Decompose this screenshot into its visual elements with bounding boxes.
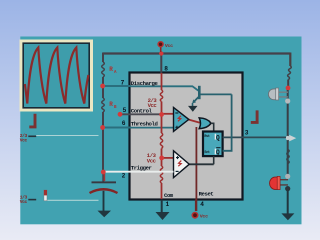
2/3 Vcc marker dash — [28, 135, 36, 137]
LED2 (on) legs — [280, 180, 288, 185]
capacitor C top plate — [92, 181, 117, 183]
node 6 junction dot — [100, 125, 105, 130]
svg-text:Vcc: Vcc — [20, 137, 28, 143]
transistor Q1 emitter — [193, 96, 199, 102]
2/3 Vcc divider label — [148, 97, 158, 109]
comparator U1 minus input wire — [162, 113, 174, 115]
node bead below LED2 — [285, 186, 290, 191]
2/3 Vcc level line — [36, 135, 98, 137]
node bead above LED2 — [285, 174, 290, 179]
node 7 junction dot — [100, 84, 105, 89]
scope inset frame — [20, 40, 94, 112]
node 2 junction dot — [101, 170, 106, 175]
resistor R1 (LED top) — [288, 66, 292, 80]
wire LED1 section — [287, 90, 289, 175]
svg-text:Vcc: Vcc — [148, 102, 158, 109]
transistor Q1 base lead — [199, 93, 231, 95]
output junction arrow — [286, 135, 297, 142]
svg-text:3: 3 — [245, 130, 249, 137]
divider resistor R3 — [160, 166, 162, 183]
pin5 control node dot — [118, 112, 123, 117]
divider wire node to R2 — [161, 114, 163, 133]
Vcc symbol (reset) — [192, 213, 208, 220]
output step glyph (pin3) — [251, 110, 259, 122]
capacitor voltage waveform trace — [25, 48, 89, 104]
trigger wire (white, node2 to comparator) — [105, 171, 174, 173]
resistor RB — [102, 98, 105, 112]
wire LED2 to ground — [287, 190, 289, 214]
svg-text:Trigger: Trigger — [131, 164, 152, 171]
LED1 (off) legs — [279, 92, 288, 97]
svg-text:Com: Com — [164, 192, 174, 199]
ground (emitter) — [188, 106, 198, 112]
wire R1 to LED1 — [287, 80, 289, 88]
capacitor voltage gauge icon — [44, 190, 47, 201]
svg-text:Threshold: Threshold — [131, 120, 158, 127]
divider wire R1 to node — [161, 102, 163, 115]
divider node A dot — [159, 112, 164, 117]
svg-text:1: 1 — [166, 201, 170, 208]
top Vcc supply rail wire — [103, 52, 290, 54]
gate G1 output wire — [211, 123, 214, 130]
wire node2 to capacitor (charged) — [103, 172, 105, 181]
capacitor C bottom plate — [90, 189, 118, 193]
output-low step glyph (left) — [29, 114, 36, 127]
pin4 external wire — [195, 200, 197, 212]
1/3 Vcc divider label — [147, 152, 157, 164]
reset wire (pin4 to gate) — [195, 127, 197, 211]
pin1 external wire — [161, 200, 163, 213]
Qbar wire to transistor base — [223, 94, 232, 150]
wire RA to node7 — [102, 77, 104, 86]
divider node B dot — [159, 156, 164, 161]
wire RB to node6 — [102, 112, 104, 128]
pin7 external wire — [103, 85, 131, 87]
divider resistor R2 — [160, 133, 162, 149]
svg-text:Set: Set — [204, 151, 209, 155]
OR gate G1 — [199, 118, 211, 129]
wire node7 to RB — [102, 86, 104, 98]
threshold internal wire — [130, 127, 174, 129]
LED1 (off) body — [268, 88, 278, 100]
flip-flop output Qbar — [215, 148, 221, 156]
1/3 Vcc threshold label — [20, 195, 28, 206]
left rail upper segment — [102, 53, 104, 63]
wire node2 to capacitor — [102, 172, 104, 182]
svg-text:4: 4 — [200, 201, 204, 208]
pin6 external wire — [103, 127, 131, 129]
Vcc junction dot — [159, 51, 163, 55]
1/3 Vcc marker dash — [28, 199, 36, 201]
svg-text:Reset: Reset — [199, 191, 214, 198]
comparator U1 output wire — [189, 120, 200, 123]
transistor Q1 emitter arrow — [192, 99, 196, 103]
divider wire R3 to pin1 — [161, 183, 163, 199]
transistor Q1 base bar — [198, 86, 201, 99]
control internal wire — [120, 113, 162, 115]
svg-text:Rst: Rst — [204, 135, 209, 139]
svg-text:Vcc: Vcc — [200, 214, 208, 220]
flip-flop output Q — [215, 134, 216, 140]
right rail upper segment — [289, 53, 291, 67]
svg-text:2: 2 — [122, 173, 126, 180]
2/3 Vcc threshold label — [20, 133, 28, 144]
wire emitter to ground — [192, 103, 194, 106]
wire capacitor to ground — [103, 191, 105, 211]
svg-text:8: 8 — [164, 66, 168, 73]
svg-text:Vcc: Vcc — [20, 199, 28, 205]
comparator U2 plus input wire — [162, 157, 174, 159]
ground (LED chain) — [281, 213, 294, 220]
svg-text:Q: Q — [216, 134, 220, 141]
Q output wire to pin3 — [223, 136, 286, 138]
wire node6 to node2 — [102, 128, 104, 173]
svg-text:R: R — [109, 66, 113, 73]
svg-text:6: 6 — [122, 120, 126, 127]
node dot (LED1 anode) — [286, 86, 291, 91]
comparator U1 (threshold) — [174, 107, 189, 131]
resistor RA — [102, 62, 105, 77]
divider wire R2 to node — [161, 149, 163, 167]
flip-flop U3 body — [203, 132, 223, 157]
resistor R2 (LED bottom) — [287, 150, 289, 164]
Vcc supply symbol — [158, 42, 173, 52]
ground (pin1) — [156, 212, 170, 220]
svg-text:Vcc: Vcc — [165, 43, 173, 49]
555 IC body — [130, 73, 243, 200]
ground (capacitor) — [98, 211, 112, 218]
svg-text:7: 7 — [121, 80, 125, 87]
svg-text:5: 5 — [123, 107, 127, 114]
svg-text:Q: Q — [216, 149, 220, 156]
circuit background panel — [20, 37, 301, 225]
pin8 external wire — [160, 54, 162, 74]
node bead below LED1 — [285, 98, 290, 103]
comparator U2 output wire — [189, 163, 213, 165]
LED2 (on) body — [270, 176, 281, 189]
divider resistor R1 — [160, 90, 162, 102]
svg-text:R: R — [109, 101, 113, 108]
svg-text:Vcc: Vcc — [147, 157, 157, 164]
flip-flop set input wire — [213, 156, 215, 164]
discharge internal wire — [130, 86, 198, 90]
1/3 Vcc level line — [45, 199, 99, 201]
voltage divider top wire — [161, 73, 163, 90]
svg-text:Discharge: Discharge — [131, 80, 159, 87]
comparator U2 (trigger) — [174, 151, 190, 178]
